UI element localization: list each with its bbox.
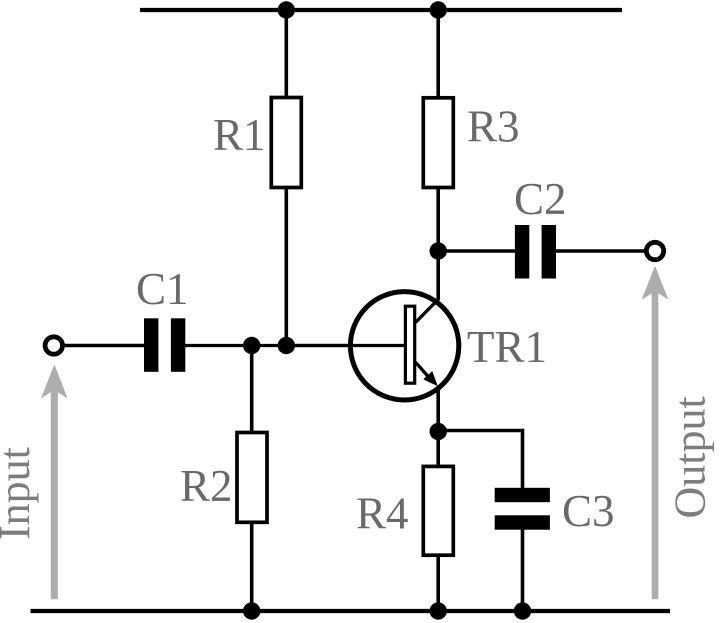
wire: R3 to collector node and into transistor	[436, 186, 440, 300]
wire: R1 to base node	[284, 186, 288, 346]
svg-text:C2: C2	[514, 174, 567, 224]
wire: input terminal to C1	[62, 344, 145, 348]
input terminal	[45, 337, 62, 354]
bottom ground rail	[31, 609, 671, 613]
capacitor C3	[495, 488, 550, 530]
wire: C2 to output terminal	[555, 249, 646, 253]
wire: corner down to C3 top plate	[521, 429, 525, 489]
svg-text:Output: Output	[666, 396, 715, 518]
top supply rail	[140, 8, 622, 12]
node: R4/ground junction	[430, 602, 447, 619]
svg-text:R1: R1	[213, 110, 266, 160]
svg-text:R4: R4	[356, 489, 409, 539]
node: R2/ground junction	[243, 602, 260, 619]
wire: collector node to C2	[438, 249, 516, 253]
svg-text:C1: C1	[136, 264, 189, 314]
node: supply/R3 junction	[430, 1, 447, 18]
svg-text:Input: Input	[0, 447, 39, 540]
wire: base node down to R2	[250, 346, 254, 435]
node: C3/ground junction	[514, 602, 531, 619]
input arrow	[41, 364, 68, 599]
node: base/R1 junction	[278, 337, 295, 354]
output terminal	[646, 242, 663, 259]
wire: C3 bottom plate to ground rail	[521, 529, 525, 611]
wire: emitter node to C3 (horizontal)	[438, 429, 521, 433]
resistor R2	[237, 433, 267, 523]
node: collector/C2 junction	[430, 242, 447, 259]
wire: emitter to emitter node	[436, 387, 440, 467]
output arrow	[642, 266, 669, 600]
node: supply/R1 junction	[278, 1, 295, 18]
transistor TR1	[286, 292, 459, 400]
resistor R4	[423, 466, 453, 555]
wire: R4 to ground rail	[436, 554, 440, 611]
wire: R2 to ground rail	[250, 521, 254, 611]
svg-text:C3: C3	[562, 486, 615, 536]
svg-text:R3: R3	[467, 102, 520, 152]
resistor R1	[271, 98, 301, 188]
wire: C1 to base of TR1	[185, 344, 405, 347]
svg-text:R2: R2	[180, 461, 233, 511]
node: base/R2 junction	[243, 337, 260, 354]
resistor R3	[423, 98, 453, 188]
capacitor C2	[515, 225, 556, 279]
capacitor C1	[144, 318, 185, 372]
node: emitter/R4/C3 junction	[430, 423, 447, 440]
wire: top rail to R3	[436, 10, 440, 99]
wire: top rail to R1	[284, 10, 288, 99]
svg-text:TR1: TR1	[467, 322, 547, 372]
